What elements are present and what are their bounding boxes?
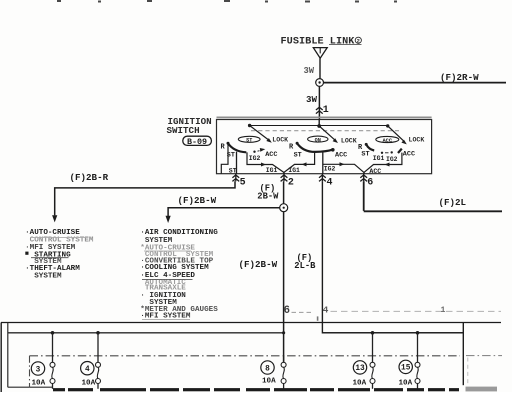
svg-text:3: 3 [36, 366, 41, 374]
left fuse block outline left edge [7, 323, 9, 388]
wire pin 4 down [322, 181, 463, 332]
wire (F)2B-R from pin 5 [55, 181, 235, 215]
fuse 13 wire stub [372, 333, 374, 363]
svg-text:15: 15 [401, 365, 411, 373]
svg-text:FUSIBLE LINK: FUSIBLE LINK [281, 36, 356, 47]
svg-text:ST: ST [294, 151, 302, 159]
fuse 15 wire stub [417, 333, 419, 363]
svg-text:LOCK: LOCK [272, 136, 288, 143]
svg-text:6: 6 [367, 178, 373, 189]
switch unit 3 rotor arm to LOCK [388, 126, 405, 142]
internal supply line [250, 125, 388, 127]
svg-text:(F)2R-W: (F)2R-W [440, 72, 479, 83]
svg-text:(F)2L: (F)2L [439, 197, 467, 208]
ON position oval U2 [308, 136, 328, 142]
svg-text:13: 13 [355, 365, 365, 373]
branch wire (F)2B-W to left [168, 208, 280, 216]
underline auto-cruise [30, 236, 89, 238]
page cut heavy band [53, 388, 65, 391]
bus line A (full width) [1, 322, 501, 324]
fuse 8 wire stub [283, 355, 285, 362]
junction dot fuse 15 tap [416, 331, 420, 335]
junction dot fuse 4 tap [96, 331, 100, 335]
svg-text:6: 6 [284, 305, 290, 317]
switch unit 1 rotor arm to LOCK [250, 126, 270, 141]
wire from fusible link down [319, 58, 321, 78]
wiper arc U2 [297, 143, 333, 152]
ignition switch box U1 outline [217, 116, 432, 118]
svg-text:IG1: IG1 [373, 155, 385, 162]
svg-text:SWITCH: SWITCH [167, 125, 200, 136]
svg-text:ACC: ACC [265, 151, 277, 159]
junction dot fuse 13 tap [371, 331, 375, 335]
junction dot fuse 8 tap [282, 331, 285, 334]
contact dots U3 [381, 152, 383, 154]
svg-text:ST: ST [246, 138, 252, 144]
pin 6 connector [363, 174, 365, 182]
mechanical linkage dashed line [251, 130, 399, 132]
wire (F)2R-W to right [324, 82, 507, 84]
svg-text:ON: ON [315, 137, 321, 143]
fuse box dash-dot border vertical left [29, 356, 31, 388]
svg-text:(F)2B-R: (F)2B-R [70, 172, 109, 183]
fuse 8 element [281, 362, 286, 367]
pin 2 connector [283, 174, 285, 182]
underline starting [31, 257, 69, 259]
svg-text:LOCK: LOCK [409, 136, 425, 143]
underline auto-cruise right [144, 250, 191, 252]
svg-text:2L-B: 2L-B [294, 261, 316, 271]
svg-text:ACC: ACC [335, 151, 347, 159]
svg-text:10A: 10A [399, 380, 413, 388]
svg-text:2: 2 [288, 178, 294, 189]
underline mfi [142, 319, 190, 321]
svg-text:10A: 10A [82, 380, 96, 388]
right block vertical edge [462, 323, 464, 385]
pin2 V junction stub [283, 172, 285, 174]
svg-text:ST: ST [361, 151, 369, 159]
ACC contact wire down to pin 4 [322, 151, 324, 174]
left fuse block bus line B [8, 332, 284, 334]
fuse 13 element [370, 362, 375, 367]
svg-text:8: 8 [265, 365, 270, 373]
svg-text:IG1: IG1 [266, 167, 278, 174]
entry wire inside box [318, 120, 320, 127]
pin 4 connector [321, 174, 323, 182]
svg-text:IG2: IG2 [324, 165, 336, 172]
ST position oval U1 [238, 136, 260, 142]
fuse 3 number [31, 362, 44, 375]
pin 1 connector chevrons [316, 107, 323, 113]
switch unit 2 pivot [317, 124, 321, 128]
contact dots + rotate arrow U1 [253, 151, 255, 153]
connector ref B-09 [183, 136, 212, 145]
svg-text:(F)2B-W: (F)2B-W [178, 195, 217, 206]
fuse 15 element [415, 362, 420, 367]
junction dot fuse 3 tap [51, 331, 55, 335]
wire pin 2 down [283, 181, 285, 204]
svg-text:2B-W: 2B-W [257, 192, 279, 202]
pin6 V junction stub [363, 172, 365, 174]
svg-text:5: 5 [240, 178, 246, 189]
R step wire U1 [221, 143, 228, 173]
svg-text:LOCK: LOCK [341, 138, 357, 145]
wiper arc U3 [366, 144, 374, 150]
cropped title text fragments at top edge [57, 0, 61, 2]
fuse 4 wire stub [97, 333, 99, 363]
fuse 3 element [50, 362, 55, 367]
wire down to ignition switch [318, 86, 320, 119]
fuse 4 element [96, 362, 101, 367]
switch unit 2 rotor arm to LOCK [319, 126, 336, 141]
fuse 3 wire stub [52, 333, 54, 363]
pin 5 connector [235, 174, 237, 182]
IG2 contact wire to pin2 V-left [247, 152, 284, 172]
left fuse block bottom stub [8, 386, 53, 388]
svg-text:10A: 10A [262, 378, 276, 386]
underline elc 4-speed [142, 279, 193, 281]
IG1 contact wire to pin2 V-right [284, 152, 315, 172]
svg-text:ACC: ACC [403, 151, 415, 159]
switch unit 1 pivot [248, 124, 251, 127]
fuse 13 number [353, 361, 366, 374]
wire to pin 6 V-left [323, 164, 364, 172]
fuse box dash-dot border horizontal [30, 355, 461, 357]
ST wire down to pin 5 [236, 152, 238, 174]
wire pin2 continues down [283, 212, 285, 363]
inline connector node on pin2 wire [280, 204, 288, 212]
ACC wire to pin 6 V-right [364, 153, 402, 173]
svg-text:10A: 10A [353, 380, 367, 388]
circled 2 after label [355, 37, 361, 43]
ACC position oval U3 [376, 136, 399, 142]
fusible link symbol (triangle) [313, 48, 327, 59]
svg-text:IG1: IG1 [288, 167, 300, 174]
svg-text:1: 1 [441, 306, 446, 315]
tick at pin4 wire crossing [317, 316, 319, 320]
ACC contact stroke U3 [398, 149, 402, 153]
wire pin 6 to (F)2L [364, 181, 502, 211]
svg-text:4: 4 [323, 305, 329, 316]
svg-text:3W: 3W [304, 66, 315, 76]
faded dash-dot vertical right [467, 358, 469, 386]
fuse 4 number [81, 362, 94, 375]
fuse 15 number [399, 360, 412, 373]
svg-text:B-09: B-09 [187, 137, 207, 147]
right bus line C [322, 332, 463, 334]
svg-text:ACC: ACC [382, 138, 392, 144]
fuse 8 number [261, 361, 274, 374]
switch unit 3 pivot [386, 124, 389, 127]
svg-text:(F)2B-W: (F)2B-W [239, 259, 278, 270]
svg-text:4: 4 [85, 366, 90, 374]
svg-text:IG2: IG2 [386, 156, 398, 163]
svg-text:ST: ST [229, 167, 237, 174]
inline connector node [316, 79, 324, 87]
svg-text:3W: 3W [306, 94, 318, 105]
svg-text:4: 4 [327, 178, 333, 189]
left page border [0, 323, 2, 393]
svg-text:1: 1 [323, 105, 329, 116]
svg-text:IG2: IG2 [249, 155, 261, 162]
bullet starting [25, 252, 28, 255]
svg-text:ACC: ACC [369, 168, 381, 175]
wiper arc U1 [228, 143, 246, 152]
svg-text:10A: 10A [32, 380, 46, 388]
svg-text:2: 2 [357, 39, 360, 45]
